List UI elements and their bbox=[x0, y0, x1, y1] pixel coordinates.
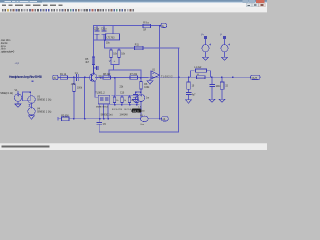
wire opamp plus input ground stub bbox=[149, 79, 151, 81]
wire top supply rail bbox=[94, 25, 160, 27]
svg-text:R8 2k2: R8 2k2 bbox=[103, 74, 111, 76]
svg-text:100k: 100k bbox=[144, 87, 150, 89]
resistor R6 bbox=[140, 82, 143, 90]
wire input signal rail bbox=[58, 76, 148, 78]
fuse R9 bbox=[143, 24, 151, 27]
regulator box U2 bbox=[106, 34, 120, 40]
wire psu bottom rail bbox=[94, 39, 120, 41]
resistor R14 bbox=[118, 50, 121, 58]
transistor Q1 bbox=[89, 74, 97, 82]
svg-text:L1 2u2: L1 2u2 bbox=[194, 67, 202, 69]
supply flag V- bbox=[223, 36, 226, 39]
window close button bbox=[256, 0, 264, 3]
capacitor C7 bbox=[186, 93, 191, 95]
window buttons min max bbox=[243, 0, 249, 3]
svg-text:SINE(0 1m): SINE(0 1m) bbox=[101, 115, 113, 117]
cluster resistor row bbox=[113, 97, 116, 103]
svg-text:.options plot=0: .options plot=0 bbox=[1, 49, 15, 53]
behavioral source B1 bbox=[140, 116, 148, 122]
wire out drop 2 bbox=[211, 77, 213, 99]
svg-text:100k: 100k bbox=[77, 87, 83, 89]
ground out drop2 bbox=[209, 99, 215, 102]
wire c11 stub bbox=[94, 67, 97, 69]
voltage source V1 bbox=[14, 94, 21, 101]
wire bus cap to loop bbox=[98, 119, 100, 132]
capacitor C11 bbox=[96, 67, 98, 70]
resistor R2 bus bbox=[62, 117, 70, 121]
menu items text bbox=[2, 5, 63, 6]
toolbar bbox=[0, 8, 267, 13]
port pill OUT bbox=[251, 75, 261, 79]
port pill IN bbox=[53, 75, 58, 79]
resistor R10 bbox=[187, 82, 191, 89]
title bar bbox=[0, 0, 267, 1]
svg-text:SINE(0 1 1k): SINE(0 1 1k) bbox=[37, 111, 51, 114]
wire cluster feed drop bbox=[114, 78, 116, 96]
svg-text:R2 600: R2 600 bbox=[61, 115, 69, 117]
svg-text:R1 1k: R1 1k bbox=[60, 74, 67, 76]
wire supply stubs bbox=[206, 39, 225, 57]
wire emitter path bbox=[95, 82, 98, 98]
wire cluster top rail bbox=[112, 94, 139, 96]
menu bar bbox=[0, 3, 267, 7]
capacitor C2 bbox=[95, 31, 99, 34]
voltage source V2 bbox=[202, 45, 209, 52]
capacitor C5 bus bbox=[97, 122, 101, 124]
wire fb node down bbox=[140, 78, 142, 118]
ground under V1 bbox=[15, 104, 21, 107]
wire mid link rail y70 bbox=[109, 70, 141, 78]
wire loop bottom bbox=[99, 131, 178, 133]
canvas background bbox=[0, 0, 267, 150]
wire input drop R3 bbox=[73, 78, 75, 119]
ground opamp plus bbox=[147, 81, 153, 84]
svg-text:TL082_2: TL082_2 bbox=[95, 91, 105, 94]
voltage source V3 bbox=[28, 96, 35, 103]
voltage source V4 bbox=[28, 108, 35, 115]
schematic group bbox=[0, 23, 260, 132]
svg-text:.47u: .47u bbox=[71, 84, 76, 86]
ground out drop1 bbox=[186, 100, 192, 103]
wire cluster row2 rail bbox=[100, 104, 108, 119]
capacitor C12 bbox=[210, 84, 215, 86]
wire v3 v4 stubs bbox=[31, 103, 33, 116]
plus minus marks bbox=[29, 104, 31, 107]
svg-text:100n: 100n bbox=[216, 86, 222, 88]
wire out drop 3 bbox=[221, 77, 223, 99]
resistor R12 bbox=[110, 50, 113, 58]
wire input drop 2 bbox=[84, 78, 86, 119]
wire bottom bus bbox=[58, 118, 140, 121]
svg-text:OUT: OUT bbox=[252, 76, 258, 80]
node pill A bbox=[161, 23, 167, 27]
svg-text:.op: .op bbox=[14, 62, 20, 65]
wire out drop 1 bbox=[188, 77, 190, 100]
app icon bbox=[1, 0, 4, 2]
resistor R13 bbox=[197, 76, 206, 79]
svg-text:MMBT3904: MMBT3904 bbox=[96, 107, 109, 109]
resistor R7 feedback bbox=[130, 76, 138, 80]
svg-text:TL082/2: TL082/2 bbox=[161, 76, 173, 79]
status bar bbox=[0, 144, 267, 150]
capacitor C6 bbox=[133, 94, 137, 97]
svg-text:V-: V- bbox=[220, 34, 222, 36]
svg-text:1m: 1m bbox=[146, 97, 149, 99]
wire cluster stubs bbox=[115, 95, 138, 104]
resistor R3 bbox=[73, 84, 76, 92]
title text bbox=[0, 0, 42, 2]
wire cluster mid rail bbox=[98, 104, 139, 106]
ground under V4 bbox=[29, 116, 35, 119]
wire oval to node bbox=[148, 118, 159, 120]
wire left supply vertical bbox=[93, 26, 95, 74]
svg-text:out_b: out_b bbox=[133, 110, 140, 113]
inductor L1 bbox=[196, 69, 207, 72]
svg-text:Headphone Amp Rev 50+50: Headphone Amp Rev 50+50 bbox=[9, 75, 42, 79]
svg-text:IN: IN bbox=[53, 77, 56, 80]
op-amp U1 bbox=[151, 71, 159, 79]
voltage source V5 bbox=[137, 94, 144, 101]
wire divider drop left bbox=[111, 48, 119, 70]
wire source loop rect bbox=[23, 92, 31, 101]
ground fb cap bbox=[133, 100, 139, 103]
ground out drop3 bbox=[219, 99, 225, 102]
wire mid horizontal rail y48 bbox=[105, 47, 180, 49]
junction dots bbox=[104, 39, 106, 41]
resistor R1 bbox=[60, 76, 67, 80]
wire node A vertical bbox=[159, 26, 161, 119]
wire out rl loop bbox=[191, 71, 211, 78]
wire fb cap branch bbox=[136, 92, 142, 100]
svg-text:SINE(0 1 1k): SINE(0 1 1k) bbox=[37, 99, 51, 102]
wire opamp output rail bbox=[148, 76, 251, 78]
svg-text:LT1763: LT1763 bbox=[107, 36, 116, 39]
svg-text:BC547B: BC547B bbox=[112, 109, 123, 111]
ground under V2 bbox=[203, 57, 209, 60]
svg-text:R9a: R9a bbox=[143, 23, 149, 25]
svg-text:C3 1u: C3 1u bbox=[101, 28, 107, 30]
net pill dark out_b bbox=[132, 109, 142, 113]
wire right feedback vertical bbox=[178, 48, 180, 132]
resistor R15 load bbox=[220, 82, 224, 89]
capacitor C3 bbox=[102, 31, 106, 34]
supply flag V+ bbox=[204, 36, 207, 39]
svg-text:1m: 1m bbox=[142, 110, 145, 112]
wire v1 stubs bbox=[17, 91, 19, 104]
svg-text:C10: C10 bbox=[120, 92, 125, 94]
ground under V6 bbox=[222, 57, 228, 60]
cluster box pair caps bbox=[98, 95, 109, 103]
svg-text:1N4148: 1N4148 bbox=[120, 115, 129, 117]
capacitor C1 bbox=[76, 75, 78, 81]
voltage source V6 bbox=[221, 45, 228, 52]
wire psu drop to mid rail bbox=[104, 40, 106, 48]
svg-text:R7 22k: R7 22k bbox=[130, 74, 138, 76]
node pill ob bbox=[162, 117, 169, 121]
resistor R8 bbox=[103, 76, 111, 80]
resistor R5 bbox=[92, 57, 95, 65]
toolbar icons bbox=[2, 9, 134, 11]
mdi child window buttons bbox=[246, 3, 252, 6]
svg-text:1R: 1R bbox=[143, 29, 146, 31]
resistor R11 on mid rail bbox=[135, 46, 144, 50]
svg-text:C2 1u: C2 1u bbox=[94, 28, 100, 30]
svg-text:R11: R11 bbox=[135, 45, 140, 47]
svg-text:SINE(0 1 1k): SINE(0 1 1k) bbox=[0, 92, 13, 95]
wire psu cap stubs bbox=[97, 26, 113, 41]
